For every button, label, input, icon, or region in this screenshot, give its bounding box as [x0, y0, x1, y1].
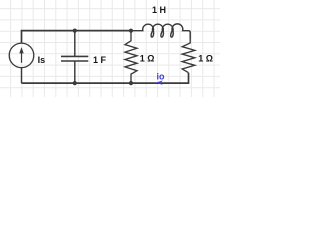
node junction dot cap bottom: [73, 81, 77, 85]
svg-text:io: io: [157, 71, 166, 81]
node junction dot resistor/inductor top: [129, 29, 133, 33]
inductor L coil: [131, 24, 190, 39]
current source Is arrow shaft: [21, 53, 23, 63]
node junction dot cap top: [73, 29, 77, 33]
resistor R1 left zigzag: [125, 31, 137, 83]
capacitor C bottom lead: [74, 61, 76, 83]
capacitor C top lead: [74, 31, 76, 57]
svg-text:Is: Is: [38, 55, 46, 65]
svg-text:1 F: 1 F: [93, 55, 107, 65]
node junction dot resistor bottom: [129, 81, 133, 85]
svg-text:1 Ω: 1 Ω: [140, 53, 155, 63]
capacitor C1 plates: [61, 56, 88, 61]
wire bottom rail: [22, 73, 189, 83]
svg-text:1 H: 1 H: [152, 5, 166, 15]
wire top rail: [22, 31, 132, 43]
resistor R2 right zigzag: [182, 38, 195, 73]
wire source bottom lead: [21, 68, 23, 83]
current arrow io (blue, points left on bottom rail): [156, 80, 163, 85]
current source Is circle: [9, 43, 34, 68]
current source arrow head: [19, 47, 23, 53]
svg-text:1 Ω: 1 Ω: [198, 54, 213, 64]
